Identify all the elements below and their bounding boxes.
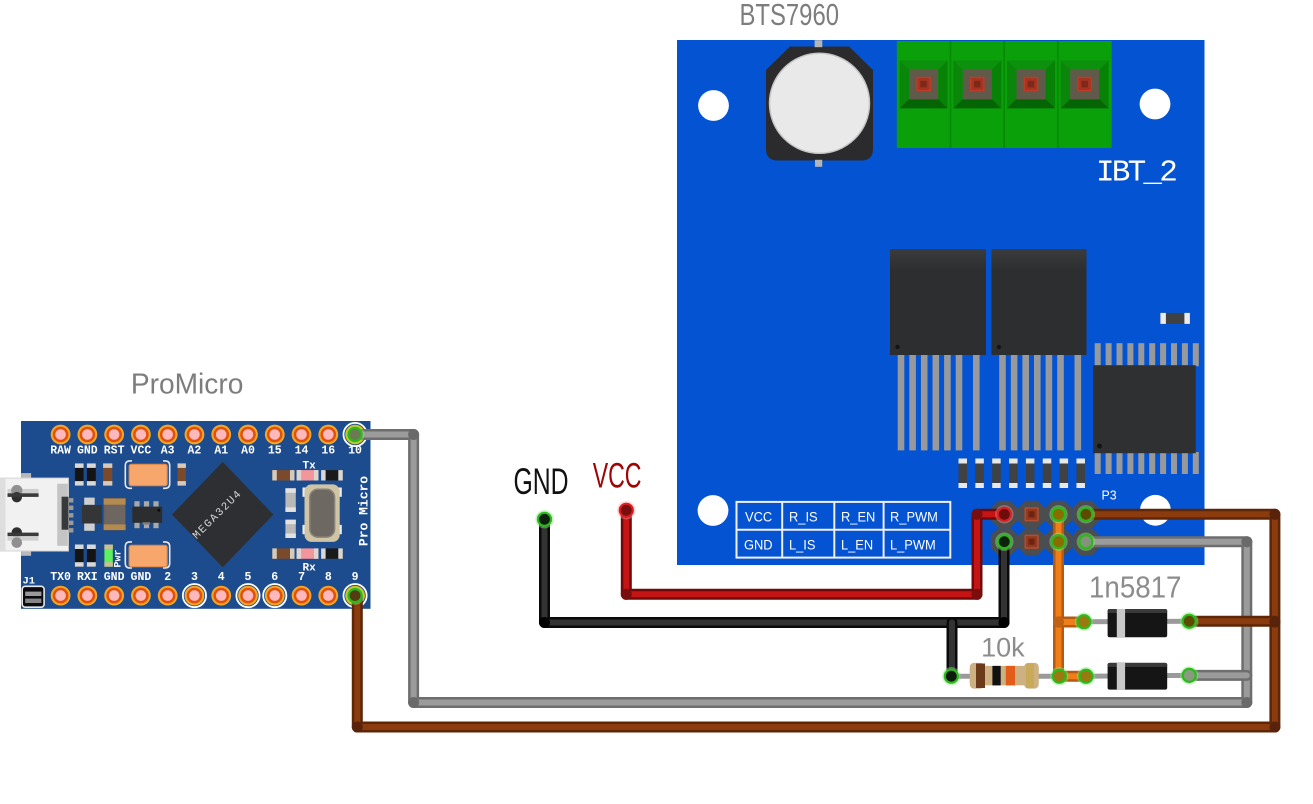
- svg-text:2: 2: [164, 571, 171, 584]
- svg-text:5: 5: [245, 571, 252, 584]
- svg-text:GND: GND: [77, 445, 98, 458]
- svg-text:TX0: TX0: [50, 571, 71, 584]
- svg-text:A2: A2: [188, 445, 202, 458]
- svg-text:A0: A0: [241, 445, 255, 458]
- svg-text:10k: 10k: [981, 633, 1025, 663]
- svg-text:14: 14: [295, 445, 309, 458]
- svg-text:R_IS: R_IS: [789, 509, 818, 525]
- svg-text:6: 6: [271, 571, 278, 584]
- svg-text:GND: GND: [744, 537, 773, 553]
- svg-text:GND: GND: [514, 460, 569, 502]
- svg-text:R_PWM: R_PWM: [890, 509, 938, 525]
- svg-text:GND: GND: [131, 571, 152, 584]
- svg-text:VCC: VCC: [131, 445, 152, 458]
- svg-text:Pro Micro: Pro Micro: [357, 476, 372, 546]
- svg-text:10: 10: [348, 445, 362, 458]
- svg-text:RAW: RAW: [50, 445, 71, 458]
- svg-text:VCC: VCC: [745, 509, 772, 525]
- svg-text:L_PWM: L_PWM: [890, 537, 936, 553]
- svg-text:16: 16: [321, 445, 335, 458]
- svg-text:9: 9: [352, 571, 359, 584]
- svg-text:L_EN: L_EN: [841, 537, 873, 553]
- svg-text:Tx: Tx: [303, 461, 317, 473]
- svg-text:GND: GND: [104, 571, 125, 584]
- svg-text:A1: A1: [214, 445, 228, 458]
- svg-text:RST: RST: [104, 445, 125, 458]
- svg-text:15: 15: [268, 445, 282, 458]
- svg-text:ProMicro: ProMicro: [131, 368, 243, 400]
- svg-text:3: 3: [191, 571, 198, 584]
- svg-text:R_EN: R_EN: [841, 509, 875, 525]
- svg-text:BTS7960: BTS7960: [740, 0, 839, 32]
- svg-text:IBT_2: IBT_2: [1096, 156, 1176, 191]
- svg-text:L_IS: L_IS: [789, 537, 816, 553]
- svg-text:8: 8: [325, 571, 332, 584]
- svg-text:P3: P3: [1102, 488, 1117, 502]
- svg-text:Pwr: Pwr: [114, 549, 125, 567]
- svg-text:1n5817: 1n5817: [1089, 570, 1181, 605]
- svg-text:4: 4: [218, 571, 225, 584]
- svg-text:A3: A3: [161, 445, 175, 458]
- svg-text:RXI: RXI: [77, 571, 98, 584]
- svg-text:Rx: Rx: [303, 563, 317, 575]
- svg-text:VCC: VCC: [593, 457, 642, 496]
